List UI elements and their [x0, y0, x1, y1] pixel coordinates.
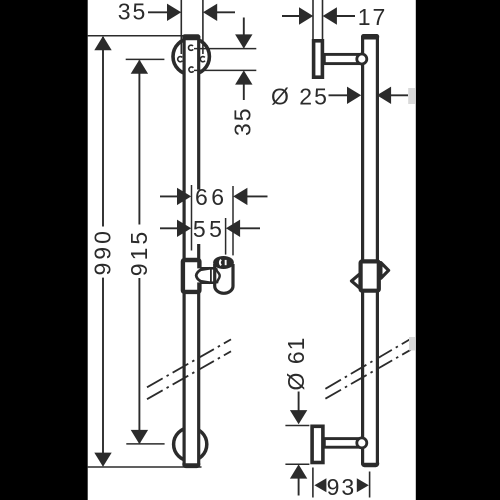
holder divider bar — [209, 267, 212, 284]
rail top cap (side) — [361, 34, 379, 40]
dim Ø61: upper line — [298, 392, 300, 412]
dim 17: arrow right-pointing — [299, 7, 313, 24]
dim 66: left leader — [160, 195, 178, 197]
dim 915: dimension line lower — [138, 278, 140, 443]
bracket arm upper (side) — [324, 54, 360, 63]
dim 66: right extension — [232, 186, 234, 255]
dim Ø61: arrow down — [290, 410, 307, 424]
dim 55: left leader — [160, 227, 178, 229]
svg-text:55: 55 — [193, 216, 226, 242]
dim 915: dimension line upper — [138, 61, 140, 225]
dim 66: right leader — [247, 195, 268, 197]
dim 35 vertical: upper line — [243, 18, 245, 48]
rail body (front view) — [183, 35, 201, 467]
holder neck bottom line — [201, 281, 215, 284]
wire rail right edge lower segment — [197, 244, 200, 466]
holder neck top line — [201, 267, 215, 270]
dim 55: right extension — [225, 218, 227, 255]
dim Ø25: right leader — [391, 94, 409, 96]
dim 990: top reference line — [88, 35, 183, 37]
dim 66: arrow left-pointing — [233, 188, 247, 205]
dim 915: top tick — [126, 58, 165, 60]
holder cup top ellipse — [213, 256, 234, 269]
dim 66: centerline extension — [191, 185, 193, 251]
screw mark S — [189, 67, 194, 72]
dim 35 top: extension line right — [202, 0, 204, 54]
dim 66: arrow right-pointing — [177, 188, 191, 205]
dim 35 top: left leader — [148, 11, 169, 13]
dim 17: right leader — [336, 15, 355, 17]
dim Ø61: tick bottom of plate — [285, 463, 309, 465]
black side bar right — [416, 0, 500, 500]
dim 35 vertical: ref line upper — [194, 48, 256, 50]
rail bottom cap — [182, 463, 200, 468]
dim 990: bottom reference line — [88, 466, 202, 468]
screw mark N in upper bracket — [188, 45, 193, 50]
cone fold line — [216, 268, 219, 283]
dim 17: left leader — [282, 15, 301, 17]
dim 93: left extension — [312, 468, 314, 498]
dim 55: right leader — [240, 227, 261, 229]
svg-text:17: 17 — [358, 4, 388, 30]
dim 93: right extension — [369, 472, 371, 498]
wire rail left edge — [183, 36, 186, 466]
svg-text:990: 990 — [90, 228, 116, 275]
black side bar left — [0, 0, 88, 500]
dim 915: bottom tick — [126, 443, 164, 445]
cone tip right (side) — [381, 263, 389, 279]
hose centerline 1 (front) — [147, 339, 231, 387]
svg-text:Ø 25: Ø 25 — [271, 83, 329, 109]
dim 915: arrow up — [131, 60, 148, 74]
dim Ø25: arrow left-pointing — [377, 87, 391, 104]
svg-text:66: 66 — [195, 184, 228, 210]
dim Ø61: lower line — [298, 478, 300, 496]
dim 990: arrow down — [94, 453, 111, 467]
artifact patch right of Ø25 leader — [408, 88, 416, 104]
cup highlight bar — [225, 260, 227, 265]
artifact patch right of hose centerline (side) — [409, 337, 416, 351]
dim 35 top: right leader — [217, 11, 236, 13]
dim Ø25: arrow right-pointing — [347, 87, 361, 104]
wall bracket circle upper — [173, 38, 209, 74]
wire rail right edge (side) — [376, 36, 379, 465]
dim 915: arrow down — [131, 430, 148, 444]
dim 990: dimension line upper — [102, 37, 104, 227]
dim 35 vertical: arrow down — [235, 34, 252, 48]
dim Ø61: arrow up — [290, 464, 307, 478]
dim 35 top: arrow right-pointing — [167, 4, 181, 21]
svg-text:93: 93 — [327, 474, 357, 500]
holder cup cylinder (front) — [215, 264, 233, 293]
arm knob lower — [357, 438, 367, 448]
wire rail left edge (side) — [361, 36, 364, 465]
wall bracket circle lower — [174, 428, 207, 461]
svg-text:35: 35 — [118, 0, 148, 25]
hose centerline 2 (side) — [325, 349, 411, 398]
holder cone (front) — [196, 268, 210, 283]
cup highlight arc — [220, 260, 221, 266]
wall plate lower (side) — [312, 426, 323, 462]
slider sleeve (front) — [183, 260, 200, 292]
arm knob upper — [357, 54, 367, 64]
dim 55: arrow left-pointing — [226, 220, 240, 237]
dim 35 top: extension line left — [180, 0, 182, 54]
rail bottom cap (side) — [361, 463, 379, 467]
dim 55: arrow right-pointing — [177, 220, 191, 237]
wire rail right edge upper segment — [197, 36, 200, 190]
cone tip left (side) — [352, 274, 361, 289]
hose centerline 2 (front) — [147, 351, 231, 399]
dim 990: dimension line lower — [102, 278, 104, 466]
dim 990: arrow up — [94, 36, 111, 50]
dim Ø25: left leader — [329, 94, 349, 96]
dim 35 vertical: ref line lower — [194, 69, 256, 71]
svg-text:915: 915 — [126, 229, 152, 276]
bracket arm lower (side) — [324, 439, 360, 448]
svg-text:35: 35 — [230, 106, 256, 136]
dim 93: arrow left-pointing — [314, 478, 326, 492]
slider sleeve (side) — [361, 261, 379, 290]
screw mark E — [200, 57, 205, 62]
dim 93: arrow right-pointing — [357, 478, 369, 492]
svg-text:Ø 61: Ø 61 — [283, 337, 309, 391]
dim Ø61: tick top of plate — [285, 425, 309, 427]
dim 35 vertical: arrow up — [235, 70, 252, 84]
dim 35 vertical: lower line — [243, 84, 245, 100]
sleeve edge gap mask — [197, 268, 205, 282]
hose centerline 1 (side) — [325, 338, 411, 388]
rail body (side view) — [361, 35, 379, 466]
dim 17: arrow left-pointing — [323, 7, 337, 24]
wall plate upper (side) — [314, 41, 323, 77]
dim 35 top: arrow left-pointing — [203, 4, 217, 21]
screw mark W — [178, 57, 183, 62]
dim 17: extension line left — [312, 0, 314, 40]
dim 17: extension line right — [322, 0, 324, 40]
rail top cap — [182, 34, 200, 40]
